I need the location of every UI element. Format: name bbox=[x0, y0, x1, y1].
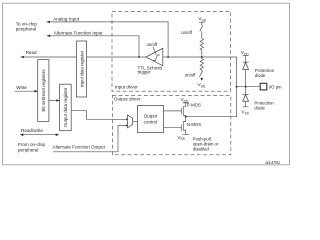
svg-text:Output driver: Output driver bbox=[114, 96, 141, 101]
wire: analog input bbox=[47, 22, 169, 57]
transistor N-MOS bbox=[181, 117, 185, 135]
svg-text:Bit set/reset registers: Bit set/reset registers bbox=[41, 69, 46, 112]
svg-text:Alternate Function Output: Alternate Function Output bbox=[53, 144, 106, 149]
svg-text:Output data register: Output data register bbox=[63, 87, 68, 127]
wire: main line schmitt to pin bus and down to MOS drains bbox=[163, 57, 237, 117]
node: alternate function input tap bbox=[138, 56, 140, 58]
node: MOS common drain bbox=[185, 116, 187, 118]
svg-text:From on-chip: From on-chip bbox=[18, 142, 46, 147]
wire: alternate function input bbox=[47, 36, 139, 57]
transistor P-MOS bbox=[181, 106, 185, 116]
svg-text:on/off: on/off bbox=[147, 42, 158, 47]
wire: control to P-MOS gate bbox=[164, 110, 182, 112]
svg-text:ai14781: ai14781 bbox=[265, 160, 280, 165]
mux bbox=[128, 115, 133, 128]
svg-text:diode: diode bbox=[254, 105, 265, 110]
wire: alternate function output bbox=[53, 126, 127, 152]
wire: read/write double arrow bbox=[20, 134, 59, 136]
node: pull resistor tap bbox=[201, 56, 203, 58]
node: protection diode junction bbox=[245, 86, 247, 88]
svg-text:Alternate Function Input: Alternate Function Input bbox=[54, 30, 103, 35]
wire: ODR to mux bbox=[71, 111, 127, 120]
input driver dashed box bbox=[112, 11, 231, 91]
svg-text:disabled: disabled bbox=[193, 146, 210, 151]
pull-down resistor bbox=[200, 57, 203, 71]
svg-text:trigger: trigger bbox=[138, 70, 151, 75]
wire: bit set/reset to output data register bbox=[49, 100, 60, 102]
wire: read line bbox=[21, 56, 77, 58]
I/O pin bbox=[260, 83, 267, 90]
svg-text:Analog Input: Analog Input bbox=[53, 17, 80, 22]
svg-text:peripheral: peripheral bbox=[16, 27, 36, 32]
svg-text:Input data register: Input data register bbox=[79, 50, 84, 87]
svg-text:N-MOS: N-MOS bbox=[187, 122, 201, 127]
svg-text:Read/write: Read/write bbox=[21, 128, 43, 133]
wire: write arrow bbox=[15, 90, 38, 92]
svg-text:Input driver: Input driver bbox=[115, 84, 138, 89]
pull-down on/off switch bbox=[199, 71, 202, 77]
input data register bbox=[77, 41, 87, 97]
bit set/reset registers bbox=[38, 60, 49, 122]
TTL Schmitt trigger bbox=[146, 48, 163, 66]
svg-text:P-MOS: P-MOS bbox=[187, 102, 201, 107]
svg-text:on/off: on/off bbox=[185, 73, 196, 78]
output driver dashed box bbox=[112, 95, 230, 154]
wire: I/O pin line bbox=[237, 86, 260, 88]
protection diode to VSS bbox=[243, 87, 249, 95]
pull-up on/off switch bbox=[200, 25, 203, 31]
output control block bbox=[137, 106, 163, 133]
svg-text:I/O pin: I/O pin bbox=[269, 84, 282, 89]
wire: mux to output control bbox=[133, 121, 138, 123]
output data register bbox=[60, 84, 72, 131]
node: bus to pin junction bbox=[236, 86, 238, 88]
wire: main line register to schmitt bbox=[87, 56, 147, 58]
wire: control to N-MOS gate bbox=[164, 127, 182, 129]
svg-text:peripheral: peripheral bbox=[18, 148, 38, 153]
svg-text:diode: diode bbox=[255, 73, 266, 78]
svg-text:Output: Output bbox=[144, 113, 159, 118]
pull-up resistor bbox=[200, 32, 203, 58]
node: analog input tap bbox=[167, 56, 169, 58]
svg-text:control: control bbox=[144, 120, 158, 125]
N-MOS VSS supply bbox=[183, 133, 189, 135]
svg-text:Write: Write bbox=[16, 85, 27, 90]
svg-text:on/off: on/off bbox=[181, 30, 192, 35]
VSS ground arrow bbox=[201, 78, 204, 81]
svg-text:Read: Read bbox=[26, 50, 37, 55]
